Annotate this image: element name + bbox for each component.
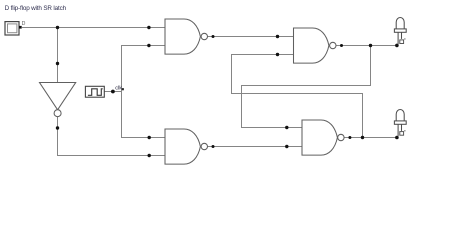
svg-text:clk: clk xyxy=(115,85,122,91)
svg-text:D: D xyxy=(22,21,26,27)
svg-text:D flip-flop with SR latch: D flip-flop with SR latch xyxy=(5,5,67,12)
